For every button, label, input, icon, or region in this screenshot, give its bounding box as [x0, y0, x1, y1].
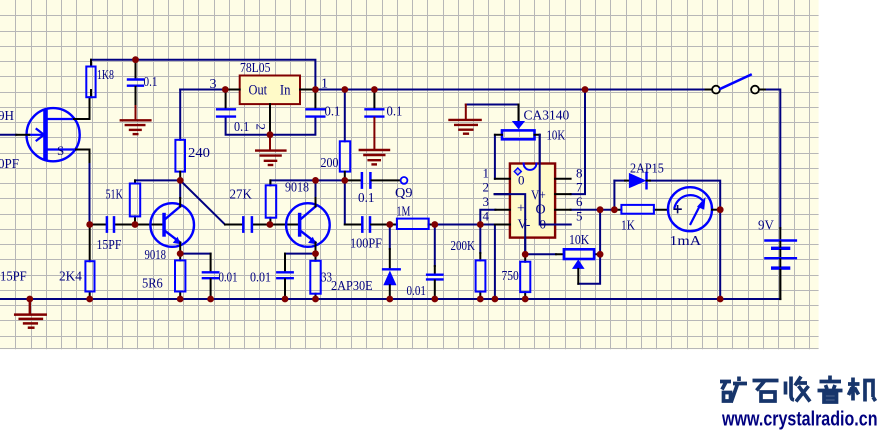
resistor 27K: [266, 180, 277, 224]
svg-text:S: S: [57, 143, 64, 158]
junction bus 2K4: [86, 296, 93, 303]
wire 200K drop: [479, 225, 481, 254]
resistor 5R6: [175, 254, 185, 299]
junction 200K top: [477, 221, 484, 228]
resistor 33: [310, 254, 320, 299]
junction bus meter drop: [717, 296, 724, 303]
capacitor 0.01 at Q2 emitter: [277, 254, 292, 299]
junction bus diode: [386, 296, 393, 303]
svg-text:2AP30E: 2AP30E: [331, 279, 373, 294]
wire pin7 riser to V+ bus: [571, 90, 585, 195]
wire bottom pot wiper loop: [578, 254, 600, 283]
wire node 3 rail to 78L05 Out: [180, 89, 225, 91]
wire pin2 feedback crossing over IC: [495, 194, 526, 254]
capacitor 0.1 at 78L05 Out: [217, 90, 235, 117]
node Q9 terminal: [401, 177, 408, 184]
junction pin6 row a: [597, 206, 604, 213]
wire pin3 riser: [480, 210, 495, 225]
svg-text:1mA: 1mA: [670, 234, 703, 249]
wire diagonal Q1 collector node to coupling cap: [180, 180, 225, 224]
wire 1M node row to pin4 and down to bus: [435, 225, 495, 300]
wire riser to 2AP15 diode row: [613, 181, 615, 210]
wire top 10K pot right lead across IC to pin5: [540, 135, 571, 225]
pin 7 stub: [555, 193, 571, 195]
svg-text:5R6: 5R6: [142, 277, 163, 292]
svg-text:0.1: 0.1: [234, 120, 249, 135]
junction 51K bottom: [132, 221, 139, 228]
junction bus 33: [312, 296, 319, 303]
svg-text:51K: 51K: [106, 188, 123, 203]
wire 78L05 bypass ground rail: [226, 118, 316, 135]
svg-text:27K: 27K: [230, 188, 252, 203]
wire 2AP15 diode row right and drop to meter node: [650, 181, 720, 210]
svg-text:0: 0: [540, 217, 547, 232]
resistor 1K: [614, 205, 668, 214]
wire Q1 emitter row to 0.01 cap: [180, 253, 210, 255]
capacitor 0.1 at 78L05 In: [307, 90, 325, 117]
ground at 78L05 pin 2: [256, 135, 285, 165]
diode 2AP30E: [383, 249, 400, 299]
wire JFET source down to 15PF node: [89, 162, 91, 225]
svg-text:240: 240: [188, 146, 210, 161]
potentiometer 10K gain: [556, 249, 600, 283]
capacitor 0.01 at Q1 emitter: [203, 254, 218, 299]
capacitor 15PF coupling: [90, 217, 135, 231]
wire row180 27K top to Q9 cap: [270, 180, 344, 185]
diode 2AP15: [625, 173, 650, 188]
svg-text:9018: 9018: [145, 248, 167, 263]
svg-text:1: 1: [321, 77, 328, 92]
resistor 200K: [476, 253, 486, 299]
svg-text:200K: 200K: [451, 239, 475, 254]
ground below 0.1 cap: [121, 106, 151, 134]
svg-text:7: 7: [576, 180, 583, 195]
svg-text:Out: Out: [249, 83, 268, 99]
junction bus 0.01c: [431, 296, 438, 303]
junction 15PF left: [86, 221, 93, 228]
junction bus 200: [341, 86, 348, 93]
pin 5 stub: [555, 224, 571, 226]
svg-text:100PF: 100PF: [350, 237, 382, 252]
wire top 10K pot left lead down to pin1: [494, 135, 496, 179]
wire 240 riser from node 3 rail: [179, 90, 181, 140]
svg-text:2: 2: [254, 124, 269, 131]
meter M 1mA: [668, 187, 720, 231]
junction 27K bottom: [267, 221, 274, 228]
junction bus 5R6: [177, 296, 184, 303]
svg-text:200: 200: [321, 156, 339, 171]
svg-text:2: 2: [483, 180, 490, 195]
svg-text:+: +: [517, 202, 525, 217]
svg-text:0.01: 0.01: [250, 271, 271, 286]
svg-text:9H: 9H: [0, 109, 14, 124]
capacitor 0.1 to Q9 test node: [345, 173, 401, 187]
wire 2AP15 diode row left stub: [614, 180, 625, 182]
watermark char shi: [753, 381, 779, 402]
svg-text:15PF: 15PF: [97, 238, 122, 253]
svg-text:1M: 1M: [397, 205, 411, 220]
capacitor 0.1 interstage coupling: [225, 217, 270, 231]
svg-text:4: 4: [483, 209, 490, 224]
wire ground bottom bus: [0, 298, 780, 300]
wire switch right to battery top: [765, 90, 780, 229]
svg-text:9V: 9V: [758, 219, 774, 234]
wire pin6 vertical to pot right: [599, 210, 601, 255]
junction 78L05 in: [312, 86, 319, 93]
transistor Q1 9018: [150, 198, 194, 254]
resistor 1K8: [86, 60, 95, 97]
svg-text:0.01: 0.01: [219, 271, 238, 286]
wire meter node down to bus: [719, 210, 721, 299]
junction bus 200K: [477, 296, 484, 303]
wire Q1 base: [135, 224, 162, 226]
wire ground to top pot wiper: [466, 104, 519, 106]
wire top rail from 1K8 to 78L05 In column: [91, 60, 315, 90]
svg-text:0.1: 0.1: [358, 191, 375, 206]
junction diode node: [386, 221, 393, 228]
svg-text:750: 750: [502, 269, 519, 284]
svg-text:0PF: 0PF: [0, 157, 19, 172]
junction 750 top: [522, 251, 529, 258]
resistor 1M: [390, 219, 435, 229]
junction bus gnd: [26, 296, 33, 303]
resistor 240: [175, 140, 185, 181]
wire main V+ bus to switch: [315, 89, 705, 91]
junction bus 750: [522, 296, 529, 303]
svg-text:0.1: 0.1: [387, 105, 403, 120]
ground at bottom bus left: [15, 299, 46, 328]
pin 6 stub: [555, 209, 571, 211]
svg-text:3: 3: [210, 77, 217, 92]
transistor Q-JFET input: [16, 97, 89, 162]
junction bus 0.01a: [207, 296, 214, 303]
wire pot right lead crossing over IC to pin5: [540, 135, 571, 225]
wire 51K top to Q1 collector node: [135, 179, 180, 181]
svg-text:0.01: 0.01: [407, 284, 426, 299]
svg-text:V+: V+: [531, 189, 546, 204]
pin 4 stub: [495, 224, 510, 226]
pin 8 stub: [555, 178, 571, 180]
svg-text:0.1: 0.1: [144, 75, 158, 90]
junction bus pin7 riser: [582, 86, 589, 93]
junction 200 bottom: [341, 177, 348, 184]
transistor Q2 9018: [286, 198, 330, 254]
pin 2 stub: [495, 193, 510, 195]
pin 1 stub: [495, 178, 510, 180]
switch S1: [706, 75, 765, 94]
wire diode 2AP30E drop: [389, 225, 391, 250]
ground near CA3140: [450, 105, 481, 134]
svg-text:1K: 1K: [621, 219, 635, 234]
potentiometer 10K offset-null: [495, 105, 540, 140]
wire pin6 output row: [571, 209, 616, 211]
junction Q2 collector: [312, 177, 319, 184]
wire 750 node to bottom 10K pot: [525, 253, 556, 255]
watermark char yin: [818, 376, 843, 403]
svg-text:www.crystalradio.cn: www.crystalradio.cn: [721, 408, 877, 431]
junction pot right: [597, 251, 604, 258]
svg-text:6: 6: [576, 194, 583, 209]
svg-text:CA3140: CA3140: [524, 109, 570, 124]
watermark char shou: [786, 377, 811, 402]
wire Q2 emitter row to 0.01 cap: [285, 253, 316, 255]
svg-text:1K8: 1K8: [97, 68, 114, 83]
battery 9V: [765, 228, 796, 299]
junction Q1 emitter: [177, 250, 184, 257]
resistor 750: [520, 254, 530, 299]
junction top rail cap: [132, 56, 139, 63]
wire riser bus to 200 resistor: [344, 90, 346, 142]
svg-text:V-: V-: [518, 218, 531, 233]
svg-text:10K: 10K: [569, 233, 589, 248]
svg-text:O: O: [536, 203, 546, 218]
svg-text:78L05: 78L05: [240, 61, 271, 76]
junction 78L05 gnd rail: [267, 131, 274, 138]
svg-text:8: 8: [576, 165, 583, 180]
watermark char ji: [848, 378, 876, 402]
resistor 200: [340, 141, 350, 180]
svg-text:2AP15: 2AP15: [630, 162, 664, 177]
wire Q1 collector vertical: [179, 180, 181, 198]
wire 0.01 cap drop: [434, 225, 436, 267]
svg-text:2K4: 2K4: [59, 270, 82, 285]
junction pin6 row b: [611, 206, 618, 213]
capacitor 0.1 bypass with ground: [366, 90, 384, 117]
svg-text:Q9: Q9: [395, 186, 413, 201]
capacitor 0.01 at detector: [427, 266, 442, 299]
junction 1M right: [431, 221, 438, 228]
svg-text:9018: 9018: [285, 181, 309, 196]
svg-text:3: 3: [483, 194, 490, 209]
svg-text:15PF: 15PF: [0, 270, 27, 285]
ground below bypass cap: [360, 118, 389, 165]
svg-text:0.1: 0.1: [325, 105, 341, 120]
svg-text:5: 5: [576, 209, 583, 224]
svg-text:In: In: [280, 83, 291, 99]
wire pin2 loop across IC down to 750 node: [495, 194, 526, 254]
op-amp U CA3140: [510, 164, 555, 238]
junction 78L05 out: [222, 86, 229, 93]
junction meter right: [717, 206, 724, 213]
svg-text:1: 1: [483, 165, 490, 180]
pin 3 stub: [495, 209, 510, 211]
capacitor 0.1 at top rail: [128, 60, 143, 106]
capacitor 100PF: [345, 217, 390, 231]
wire Q2 base: [270, 224, 298, 226]
resistor 2K4: [85, 225, 94, 300]
junction bus pin4 drop: [492, 296, 499, 303]
junction bus 0.01b: [282, 296, 289, 303]
junction Q1 collector: [177, 177, 184, 184]
watermark char kuang: [720, 377, 747, 403]
wire 100PF drop from 200 node: [345, 180, 362, 224]
resistor 51K: [130, 180, 140, 224]
junction bus bypass cap: [371, 86, 378, 93]
svg-text:0: 0: [518, 173, 525, 188]
wire Q2 collector vertical: [315, 180, 317, 198]
svg-text:10K: 10K: [547, 129, 566, 144]
junction Q2 emitter: [312, 250, 319, 257]
schematic grid background: [0, 0, 819, 349]
wire JFET gate from left edge: [0, 134, 16, 136]
regulator U 78L05: [225, 76, 315, 135]
